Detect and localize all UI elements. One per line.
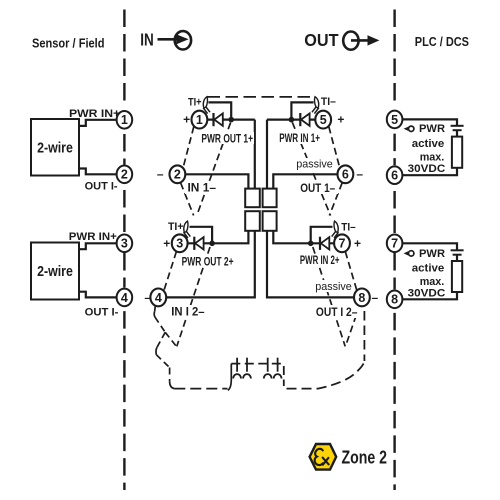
bus connector pin 1 [233, 358, 241, 379]
svg-text:1: 1 [121, 113, 128, 127]
svg-text:max.: max. [420, 276, 445, 288]
module outline dashed: circle 3 to circle 4 [164, 252, 176, 291]
junction dot channel 1 right [289, 117, 295, 123]
module outline dashed right vertical below circle 8 [363, 311, 365, 361]
svg-text:OUT: OUT [304, 30, 339, 50]
bypass wire TI- channel 2 [311, 227, 333, 242]
bus connector hump top dashed [231, 363, 283, 365]
junction dot channel 2 left [209, 241, 215, 247]
wire row A right (terminal 5 to transformer) [267, 118, 316, 120]
svg-text:Sensor / Field: Sensor / Field [32, 36, 105, 51]
svg-text:+: + [337, 113, 344, 127]
svg-text:2: 2 [121, 168, 128, 182]
TI+ test hook channel 1 [203, 97, 210, 114]
module outline dashed: circle 5 to circle 6 [329, 127, 340, 168]
svg-text:+: + [183, 113, 190, 127]
bus connector pin 2 [243, 358, 251, 379]
load resistor block 1 [452, 137, 462, 168]
svg-text:2-wire: 2-wire [37, 263, 73, 280]
module outline dashed: circle 7 to circle 8 [345, 252, 357, 291]
svg-text:2: 2 [174, 168, 181, 182]
diode D7 (channel 2 right) [320, 237, 329, 250]
Ex ATEX hexagon symbol [310, 444, 337, 470]
wire box2 to terminal 3 [79, 243, 116, 249]
svg-text:PWR: PWR [419, 248, 445, 260]
module outline dashed: junction 1 to TI+ hook 3 [198, 123, 231, 214]
2-wire sensor box 1 [31, 119, 79, 176]
module outline dashed: junction 5 to TI- hook 7 [292, 122, 330, 215]
module terminal circle 1 [192, 111, 208, 129]
PWR active source symbol block 1 [404, 127, 409, 131]
wire box2 to terminal 4 [79, 292, 116, 298]
module terminal circle 4 [150, 289, 166, 307]
svg-text:IN 1–: IN 1– [188, 183, 217, 195]
svg-text:TI–: TI– [321, 96, 336, 108]
diode D1 (channel 1 left) [214, 113, 223, 126]
bypass wire TI- channel 1 [291, 102, 313, 118]
svg-text:3: 3 [176, 237, 183, 251]
wire terminal 5 to load [402, 119, 457, 125]
svg-text:–: – [371, 290, 378, 304]
bus connector pin 3 [264, 358, 272, 379]
svg-text:–: – [157, 167, 164, 181]
module outline bottom dashed horizontal right [287, 361, 365, 389]
bus connector hump right edge dashed [283, 366, 285, 386]
svg-text:8: 8 [391, 293, 398, 307]
svg-text:5: 5 [391, 113, 398, 127]
wire row C left (terminal 3 to transformer) [188, 231, 249, 244]
svg-text:6: 6 [391, 169, 398, 183]
module terminal circle 5 [315, 111, 331, 129]
svg-text:–: – [356, 167, 363, 181]
terminal circle 8 (PLC column) [387, 291, 403, 309]
TI- test hook channel 1 [312, 97, 319, 114]
svg-text:OUT 1–: OUT 1– [300, 183, 336, 195]
module outline dashed: circle 8 to lower apex right [346, 305, 360, 346]
terminal circle 4 (field column) [117, 289, 133, 307]
svg-text:OUT I-: OUT I- [85, 180, 118, 192]
junction dot channel 2 right [308, 241, 314, 247]
svg-text:PWR IN 2+: PWR IN 2+ [300, 255, 340, 267]
terminal circle 5 (PLC column) [387, 111, 403, 129]
wire row D right (terminal 8 to transformer) [267, 231, 354, 298]
module outline dashed: top TI+ to TI- link [208, 96, 315, 98]
svg-text:30VDC: 30VDC [408, 288, 446, 300]
svg-text:passive: passive [296, 159, 333, 171]
module outline bottom-left zigzag [154, 305, 176, 389]
wire row B right (terminal 6 to transformer) [273, 174, 337, 188]
TI- test hook channel 2 [332, 221, 339, 238]
svg-text:active: active [412, 138, 445, 150]
separator line right (dashed vertical PLC/DCS boundary) [393, 10, 395, 491]
module outline dashed: circle 2 to TI+ hook 3 [181, 183, 194, 216]
svg-text:PWR IN 1+: PWR IN 1+ [279, 133, 320, 145]
wire row C right (terminal 7 to transformer) [273, 231, 334, 244]
svg-text:PWR IN+: PWR IN+ [69, 231, 117, 243]
svg-text:7: 7 [391, 237, 398, 251]
svg-text:TI+: TI+ [168, 221, 184, 233]
svg-text:30VDC: 30VDC [408, 163, 446, 175]
diode D5 (channel 1 right) [300, 113, 309, 126]
svg-text:4: 4 [121, 291, 128, 305]
TI+ test hook channel 2 [184, 221, 191, 238]
svg-text:4: 4 [155, 291, 162, 305]
wire row A left (terminal 1 to transformer) [207, 118, 255, 120]
svg-text:+: + [354, 236, 361, 250]
module outline bottom dashed horizontal left [174, 388, 227, 390]
svg-text:2-wire: 2-wire [37, 139, 73, 156]
junction dot channel 1 left [228, 117, 234, 123]
wire row B left (terminal 2 to transformer) [185, 174, 248, 188]
svg-text:OUT I 2–: OUT I 2– [316, 307, 358, 319]
wire box1 to terminal 2 [79, 169, 116, 175]
svg-text:IN: IN [140, 29, 154, 49]
bypass wire TI+ channel 2 [190, 227, 213, 242]
load resistor block 2 [452, 261, 462, 292]
transformer T1 (isolation barrier, four winding quadrants) [245, 189, 276, 231]
2-wire sensor box 2 [31, 243, 79, 300]
svg-text:Zone 2: Zone 2 [342, 448, 388, 468]
capacitor bars block 1 [451, 125, 464, 127]
svg-text:PWR IN+: PWR IN+ [69, 108, 120, 120]
wire load to terminal 8 [402, 292, 457, 299]
module terminal circle 6 [338, 165, 354, 183]
OUT arrow symbol [343, 31, 379, 49]
terminal circle 2 (field column) [117, 166, 133, 184]
svg-text:5: 5 [320, 113, 327, 127]
wire row D left (terminal 4 to transformer) [167, 231, 255, 298]
wire box1 to terminal 1 [79, 120, 116, 126]
module outline dashed: circle 1 to circle 2 [183, 127, 194, 168]
terminal circle 3 (field column) [117, 235, 133, 253]
IN arrow symbol [158, 31, 192, 49]
terminal circle 1 (field column) [117, 111, 133, 129]
separator line left (dashed vertical Sensor/Field boundary) [123, 10, 125, 491]
bus connector pin 4 [274, 358, 282, 379]
terminal circle 6 (PLC column) [387, 166, 403, 184]
svg-text:PWR OUT 1+: PWR OUT 1+ [201, 133, 253, 145]
module terminal circle 7 [334, 234, 350, 252]
module outline dashed: circle 6 to TI- hook 7 [329, 183, 342, 216]
svg-text:PWR: PWR [419, 123, 445, 135]
module outline dashed: junction 7 to lower apex right [313, 247, 345, 346]
svg-text:TI–: TI– [341, 222, 355, 234]
svg-text:OUT I-: OUT I- [85, 307, 119, 319]
svg-text:active: active [412, 263, 445, 275]
svg-text:7: 7 [339, 237, 346, 251]
svg-text:passive: passive [315, 281, 352, 293]
PWR active source symbol block 2 [404, 251, 409, 255]
svg-text:6: 6 [342, 168, 349, 182]
svg-text:IN I 2–: IN I 2– [171, 307, 205, 319]
svg-text:max.: max. [420, 151, 445, 163]
svg-text:TI+: TI+ [188, 96, 202, 108]
terminal circle 7 (PLC column) [387, 235, 403, 253]
svg-text:+: + [163, 236, 170, 250]
diode D3 (channel 2 left) [194, 237, 203, 250]
wire terminal 7 to load [402, 243, 457, 249]
svg-text:PLC / DCS: PLC / DCS [415, 35, 469, 49]
svg-text:8: 8 [358, 291, 365, 305]
capacitor bars block 2 [451, 249, 464, 251]
module outline dashed: junction 3 to lower apex [177, 247, 210, 346]
module terminal circle 2 [170, 165, 186, 183]
svg-text:1: 1 [196, 113, 203, 127]
svg-text:3: 3 [121, 237, 128, 251]
wire load to terminal 6 [402, 168, 457, 175]
bypass wire TI+ channel 1 [208, 102, 231, 118]
bus connector hump left edge [228, 364, 232, 391]
label backgrounds [169, 132, 360, 318]
svg-text:PWR OUT 2+: PWR OUT 2+ [182, 256, 234, 268]
module terminal circle 3 [172, 234, 188, 252]
module terminal circle 8 [354, 289, 370, 307]
